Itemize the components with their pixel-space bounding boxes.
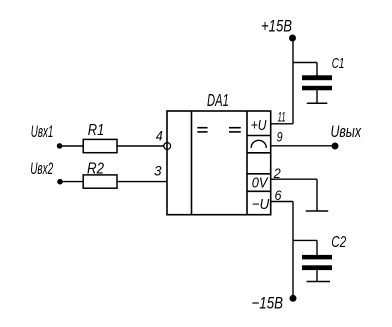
- svg-text:3: 3: [154, 163, 162, 178]
- node output dot: [332, 143, 339, 150]
- resistor R2: [83, 175, 117, 188]
- cell label +U: [251, 118, 267, 134]
- svg-text:+15В: +15В: [261, 17, 292, 35]
- wire pin 11 stub: [271, 123, 293, 125]
- pin number 6: [275, 188, 282, 203]
- label -15В: [252, 295, 284, 313]
- op-amp DA1 body: [167, 111, 271, 215]
- label R2: [87, 161, 104, 178]
- ground bar C1: [307, 102, 328, 104]
- svg-text:−15В: −15В: [252, 295, 284, 313]
- node -15V dot: [290, 295, 297, 302]
- wire C1 branch: [293, 63, 317, 76]
- output arc symbol: [251, 140, 266, 148]
- wire R2 to pin 3: [117, 181, 167, 183]
- ground bar C2: [307, 281, 330, 283]
- svg-text:R1: R1: [88, 122, 105, 139]
- label C2: [331, 234, 346, 251]
- node input 2 terminal dot: [57, 179, 63, 185]
- svg-text:11: 11: [278, 109, 286, 124]
- cell label 0V: [252, 175, 269, 191]
- label Uвх2: [30, 160, 53, 178]
- svg-text:6: 6: [275, 188, 282, 203]
- label +15В: [261, 17, 292, 35]
- svg-text:+U: +U: [251, 118, 267, 134]
- label DA1: [207, 90, 229, 110]
- node input 1 terminal dot: [57, 143, 63, 149]
- wire input1 to R1: [60, 145, 84, 147]
- wire -15V vertical: [292, 202, 294, 299]
- inversion circle pin 4: [164, 143, 171, 150]
- pin number 9: [277, 130, 283, 145]
- pin number 2: [273, 166, 281, 181]
- svg-text:DA1: DA1: [207, 90, 229, 110]
- cell label -U: [252, 197, 270, 213]
- node +15V dot: [289, 35, 296, 42]
- resistor R1: [83, 139, 117, 152]
- svg-text:C1: C1: [332, 55, 345, 72]
- wire +15V vertical: [292, 38, 294, 124]
- label R1: [88, 122, 105, 139]
- label C1: [332, 55, 345, 72]
- wire pin 6 stub: [271, 201, 293, 203]
- svg-text:9: 9: [277, 130, 283, 145]
- wire output pin 9: [271, 145, 335, 147]
- wire pin 2 to ground: [271, 179, 317, 211]
- ground bar pin 2: [306, 210, 328, 212]
- svg-text:C2: C2: [331, 234, 346, 251]
- svg-text:Uвх1: Uвх1: [31, 123, 54, 141]
- pin number 3: [154, 163, 162, 178]
- svg-text:Uвх2: Uвх2: [30, 160, 53, 178]
- wire C2 branch: [293, 240, 317, 255]
- capacitor C2: [302, 255, 332, 281]
- svg-text:Uвых: Uвых: [331, 123, 362, 141]
- pin number 11: [278, 109, 286, 124]
- svg-text:4: 4: [156, 129, 163, 144]
- svg-text:R2: R2: [87, 161, 104, 178]
- svg-text:0V: 0V: [252, 175, 269, 191]
- svg-text:−U: −U: [252, 197, 270, 213]
- wire R1 to pin 4: [117, 145, 164, 147]
- capacitor C1: [302, 75, 332, 103]
- op-amp function symbol = =: [197, 128, 241, 132]
- pin number 4: [156, 129, 163, 144]
- label Uвых: [331, 123, 362, 141]
- wire input2 to R2: [60, 181, 83, 183]
- label Uвх1: [31, 123, 54, 141]
